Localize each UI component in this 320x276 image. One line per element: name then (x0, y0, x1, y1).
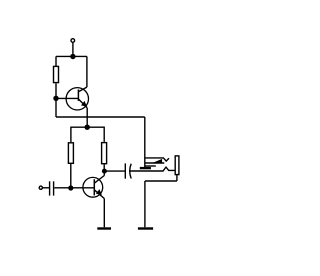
jack contact bar (140, 167, 151, 169)
transistor Q2 (83, 176, 104, 199)
wire (54, 187, 71, 189)
ground (under Q2) (97, 227, 111, 229)
jack J1 (phone jack) (140, 156, 179, 175)
wire (Q2 base lead) (71, 187, 95, 189)
wire (Q2 collector up) (103, 171, 105, 175)
wire (Q1 collector up) (86, 56, 88, 87)
wire (Q1 emitter down) (86, 108, 88, 127)
transistor Q1 (66, 87, 88, 110)
wire (Q2 emitter down) (103, 199, 105, 228)
wire (R1 bottom to corner) (55, 83, 57, 117)
wire (Q1 base lead) (56, 97, 78, 99)
wire (jack bottom rail) (145, 180, 177, 182)
wire (down to ground) (144, 181, 146, 227)
wire (top rail) (56, 55, 87, 57)
wire (cap to jack, with plug-tip notch) (130, 167, 175, 171)
resistor R3 (102, 143, 107, 164)
wire (R3 to output node) (103, 164, 105, 171)
node (Q1 base) (53, 96, 58, 101)
jack tip contact line (145, 162, 165, 164)
resistor R1 (54, 66, 59, 82)
wire (down to jack contacts) (144, 117, 146, 168)
ground (under jack) (138, 227, 153, 229)
wire (43, 187, 49, 189)
jack ring contact stub (145, 165, 156, 167)
terminal (power input, top) (71, 39, 75, 43)
wire (jack sleeve pin down) (176, 175, 178, 181)
wire (R1 top stub) (55, 56, 57, 66)
wire (bracket to R2 R3) (71, 127, 104, 142)
jack top contact with notch (145, 158, 169, 161)
node (emitter / divider) (85, 125, 90, 130)
wire (R2 to Q2 base node) (70, 164, 72, 188)
jack contact arrow (152, 159, 162, 163)
node (Q2 base) (68, 185, 73, 190)
wire (output to cap) (104, 170, 124, 172)
jack body rectangle (175, 156, 179, 175)
node (top rail junction) (70, 54, 75, 59)
node (Q2 collector / output) (102, 169, 107, 174)
capacitor C2 (output, polarized) (125, 163, 131, 178)
wire (72, 42, 74, 56)
resistor R2 (68, 143, 73, 164)
terminal (signal input) (39, 186, 42, 189)
capacitor C1 (input) (50, 181, 54, 195)
wire (feedback run to jack) (56, 116, 145, 118)
